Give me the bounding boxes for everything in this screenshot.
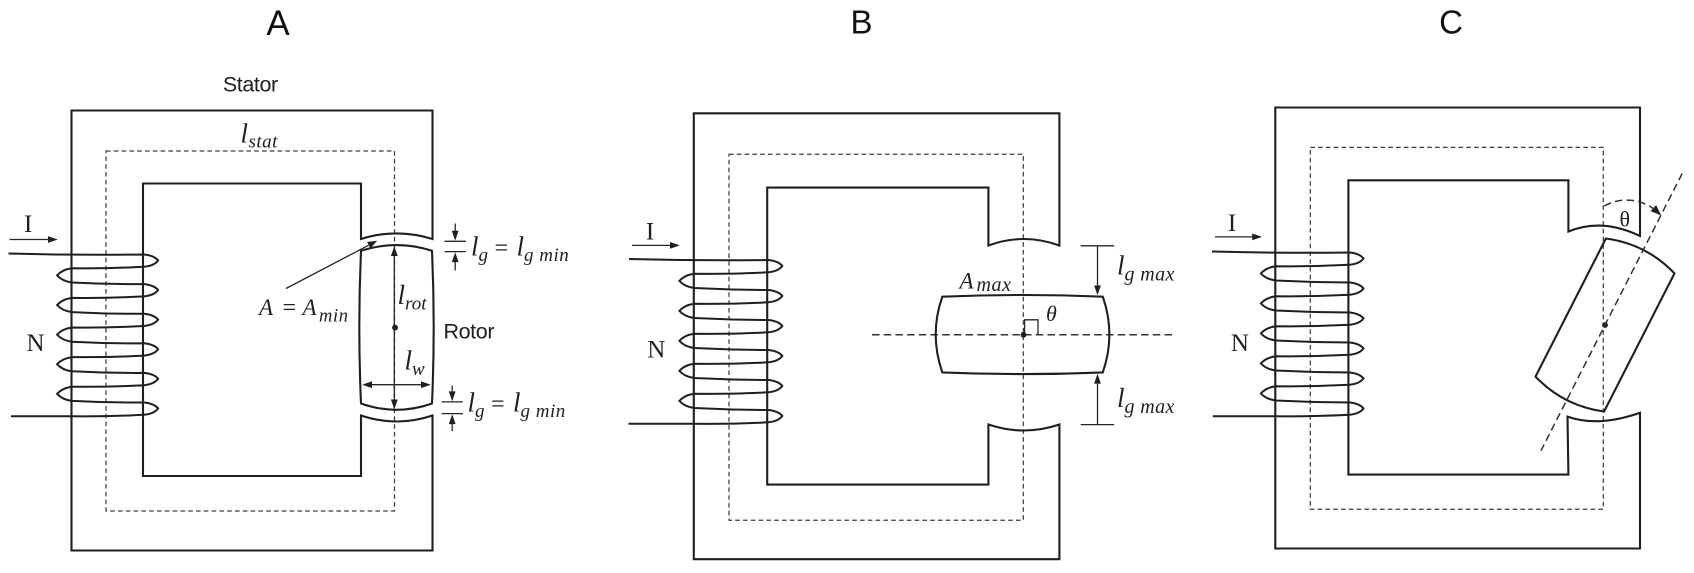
- bottom air-gap dimension marker A: [442, 401, 463, 403]
- svg-text:I: I: [646, 219, 654, 246]
- stator B outline: [694, 113, 1060, 559]
- svg-text:N: N: [26, 330, 44, 357]
- coil C with lead wires: [1212, 252, 1364, 417]
- rotor B outline: [936, 295, 1110, 374]
- top air-gap dimension marker A: [445, 240, 466, 242]
- rotor B center dot: [1021, 332, 1027, 338]
- coil B with lead wires: [629, 259, 783, 424]
- top air-gap arrow l_g max (B): [1081, 245, 1115, 247]
- pointer line for A = A_min: [286, 245, 369, 288]
- horizontal dashed centerline B: [872, 334, 1175, 336]
- svg-text:A: A: [266, 4, 290, 43]
- dashed mean magnetic path A: [106, 151, 395, 511]
- rotor C center dot: [1602, 322, 1608, 328]
- stator A outline: [72, 111, 433, 551]
- svg-text:N: N: [647, 336, 665, 363]
- svg-text:N: N: [1231, 330, 1249, 357]
- svg-text:Rotor: Rotor: [444, 320, 495, 344]
- stator C outline: [1275, 108, 1640, 549]
- rotor width dimension arrow l_w: [364, 384, 429, 386]
- rotor A center dot: [392, 325, 398, 331]
- current arrow (panel A): [10, 239, 49, 241]
- dashed mean magnetic path B: [729, 154, 1023, 520]
- svg-text:θ: θ: [1046, 301, 1057, 326]
- current arrow (panel C): [1215, 236, 1253, 238]
- rotor A outline: [359, 245, 433, 410]
- rotor length dimension line l_rot: [393, 248, 395, 408]
- bottom air-gap arrow l_g max (B): [1081, 424, 1115, 426]
- dashed angle arc theta (C): [1604, 200, 1658, 213]
- svg-text:I: I: [24, 211, 32, 238]
- coil A with lead wires: [9, 254, 159, 417]
- rotor C outline (tilted): [1536, 239, 1675, 412]
- dashed mean magnetic path C: [1310, 147, 1603, 509]
- svg-text:I: I: [1228, 210, 1236, 237]
- svg-text:C: C: [1439, 4, 1463, 41]
- current arrow (panel B): [632, 244, 670, 246]
- svg-text:Stator: Stator: [223, 72, 278, 96]
- dashed rotor axis line C: [1541, 174, 1682, 451]
- svg-text:B: B: [850, 3, 872, 40]
- right-angle marker at rotor B center: [1025, 320, 1038, 334]
- svg-text:θ: θ: [1620, 207, 1631, 232]
